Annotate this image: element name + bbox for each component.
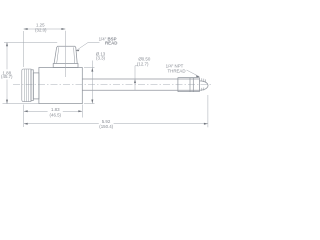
arrow 1.88 bottom (6, 100, 8, 104)
cap mid ring (31, 70, 33, 101)
1.25 dim (23, 31, 25, 67)
arrow NPT leader (196, 75, 200, 77)
dia .13 dim (84, 67, 95, 69)
arrow 1.83 left (24, 110, 28, 112)
arrow 5.92 left (24, 123, 28, 125)
body (39, 68, 82, 104)
arrow dia 0.50 leader (134, 79, 136, 83)
dimensions (3, 29, 208, 127)
port base flange (53, 64, 78, 68)
svg-text:(46.5): (46.5) (50, 112, 62, 117)
arrowheads (6, 28, 208, 125)
port centerline / 1.25 extension (64, 31, 66, 77)
port (tapered, BSP) (54, 46, 77, 63)
arrow 5.92 right (204, 123, 208, 125)
svg-text:(150.4): (150.4) (99, 124, 113, 129)
undercut groove (189, 78, 191, 92)
svg-text:(32.0): (32.0) (35, 27, 47, 32)
1.83 dim (23, 105, 25, 128)
main centerline (13, 84, 213, 86)
nose (bullet tip) (200, 81, 209, 90)
svg-text:1.83: 1.83 (51, 107, 60, 112)
svg-text:THREAD: THREAD (167, 68, 185, 73)
thread section step (177, 78, 179, 92)
tube (82, 78, 199, 80)
svg-text:READ: READ (105, 41, 117, 46)
arrow dia.13 top (91, 68, 93, 72)
arrow 1.83 right (78, 110, 82, 112)
port thread inner lines (57, 47, 59, 63)
end face (199, 78, 201, 92)
cap (left knurled gland) (22, 69, 31, 102)
svg-text:(12.7): (12.7) (137, 61, 149, 66)
arrow dia.13 bottom (91, 100, 93, 104)
arrow 1.25 right (61, 28, 65, 30)
arrow 1.88 top (6, 42, 8, 46)
neck (33, 73, 39, 99)
1.88 dim (4, 42, 57, 44)
arrow BSP leader (76, 49, 80, 51)
dia 0.50 leader (135, 66, 138, 90)
5.92 dim (207, 95, 209, 127)
BSP leader (76, 43, 100, 51)
NPT leader (187, 70, 200, 77)
thread tick marks (202, 78, 206, 91)
svg-text:(45.7): (45.7) (1, 74, 13, 79)
svg-text:(3.3): (3.3) (96, 56, 106, 61)
arrow 1.25 left (24, 28, 28, 30)
